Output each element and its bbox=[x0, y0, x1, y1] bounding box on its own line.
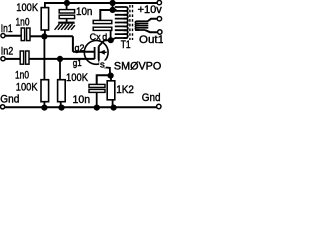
capacitor C4 bottom lead bbox=[96, 92, 98, 107]
svg-text:Cx: Cx bbox=[90, 32, 102, 42]
wire source node to C4 bbox=[97, 75, 111, 84]
wire C1 to node A bbox=[30, 35, 45, 37]
svg-text:+10v: +10v bbox=[138, 4, 163, 16]
svg-text:T1: T1 bbox=[121, 39, 131, 51]
transformer T1 primary winding bbox=[115, 7, 128, 38]
wire In1 to C1 bbox=[5, 35, 21, 37]
junction dot rail C4 bbox=[94, 105, 100, 111]
svg-text:Out1: Out1 bbox=[139, 34, 163, 46]
terminal In2 bbox=[1, 57, 5, 61]
wire C2 to g1 bbox=[29, 58, 95, 60]
svg-text:Gnd: Gnd bbox=[142, 92, 161, 104]
resistor R1 100K top lead bbox=[44, 3, 46, 8]
transistor Q1 gate bar bbox=[94, 47, 96, 59]
wire g2 horizontal to gate bbox=[73, 51, 95, 53]
node B junction dot bbox=[57, 56, 63, 62]
resistor R4 1K2 body bbox=[107, 81, 115, 100]
svg-text:1K2: 1K2 bbox=[116, 84, 134, 96]
wire In2 to C2 bbox=[5, 58, 20, 60]
wire g2 corner vertical bbox=[72, 36, 74, 52]
terminal Out1 bbox=[158, 30, 162, 34]
resistor R3 100K body bbox=[58, 80, 66, 102]
wire node A to g2 corner bbox=[45, 35, 73, 37]
svg-text:In2: In2 bbox=[1, 46, 14, 58]
resistor R1 bottom lead bbox=[44, 30, 46, 36]
wire rail down to node C bbox=[112, 3, 114, 10]
junction dot C3 on rail bbox=[64, 0, 70, 6]
terminal In1 bbox=[1, 34, 5, 38]
capacitor C3 10n plates bbox=[59, 10, 74, 13]
junction dot rail R4 bbox=[111, 105, 117, 111]
svg-text:1n0: 1n0 bbox=[16, 17, 30, 29]
capacitor C3 bottom lead bbox=[66, 19, 68, 22]
svg-text:d: d bbox=[102, 32, 107, 42]
source node junction dot bbox=[108, 73, 114, 79]
svg-text:10n: 10n bbox=[73, 94, 91, 106]
svg-text:100K: 100K bbox=[16, 81, 38, 93]
transistor Q1 substrate arrow bbox=[100, 50, 105, 55]
label s with white backing bbox=[99, 61, 106, 68]
junction dot rail R2 bbox=[41, 105, 47, 111]
wire bottom ground rail bbox=[5, 106, 157, 108]
wire node B down to R3 bbox=[59, 59, 61, 80]
junction dot rail R3 bbox=[58, 105, 64, 111]
svg-text:s: s bbox=[100, 59, 105, 70]
terminal Gnd left bbox=[1, 105, 5, 109]
capacitor C2 1n0 plates bbox=[20, 51, 23, 64]
node A junction dot bbox=[41, 33, 47, 39]
drain node junction dot bbox=[108, 37, 114, 43]
wire secondary top to terminal bbox=[148, 19, 157, 21]
svg-text:SMØVPO: SMØVPO bbox=[114, 60, 162, 72]
svg-text:g2: g2 bbox=[75, 43, 85, 54]
capacitor C3 10n top lead bbox=[66, 3, 68, 10]
capacitor C4 bypass plates bbox=[89, 84, 105, 87]
wire node C to T1 primary top bbox=[113, 9, 117, 11]
resistor R2 100K body bbox=[41, 80, 49, 102]
transformer T1 secondary winding bbox=[135, 21, 148, 30]
capacitor C1 1n0 plates bbox=[21, 28, 24, 41]
svg-text:100K: 100K bbox=[66, 72, 89, 84]
terminal +10v bbox=[157, 0, 161, 4]
transistor Q1 channel bar bbox=[98, 46, 100, 59]
capacitor Cx plates bbox=[93, 20, 112, 23]
junction dot rail above T1 bbox=[110, 0, 116, 6]
svg-text:Gnd: Gnd bbox=[0, 94, 19, 106]
transistor Q1 substrate lead bbox=[100, 51, 107, 53]
capacitor Cx bottom lead to drain node bbox=[110, 30, 112, 40]
svg-text:g1: g1 bbox=[73, 58, 82, 69]
ground symbol for C3 bbox=[58, 22, 74, 24]
resistor R2 bottom lead bbox=[43, 102, 45, 108]
svg-text:100K: 100K bbox=[16, 2, 38, 14]
terminal Gnd right bbox=[157, 104, 161, 108]
svg-text:10n: 10n bbox=[76, 6, 92, 18]
transistor Q1 source lead bbox=[99, 59, 110, 75]
svg-text:In1: In1 bbox=[1, 23, 13, 35]
resistor R4 1K2 top lead bbox=[110, 76, 112, 81]
svg-text:1n0: 1n0 bbox=[15, 69, 29, 81]
wire node A down to R2 bbox=[43, 36, 45, 79]
resistor R1 100K body bbox=[41, 8, 48, 30]
terminal secondary top bbox=[157, 17, 161, 21]
node C junction dot bbox=[110, 7, 116, 13]
transformer T1 core bbox=[130, 5, 133, 40]
transistor Q1 drain lead bbox=[99, 40, 109, 46]
wire top supply rail bbox=[44, 2, 157, 4]
resistor R4 bottom lead bbox=[112, 100, 114, 108]
transistor Q1 body circle bbox=[84, 41, 108, 65]
wire node C to Cx bbox=[100, 10, 112, 20]
wire secondary bottom to Out1 bbox=[145, 30, 157, 32]
resistor R3 bottom lead bbox=[60, 102, 62, 108]
wire T1 primary bottom to drain node bbox=[111, 38, 116, 40]
